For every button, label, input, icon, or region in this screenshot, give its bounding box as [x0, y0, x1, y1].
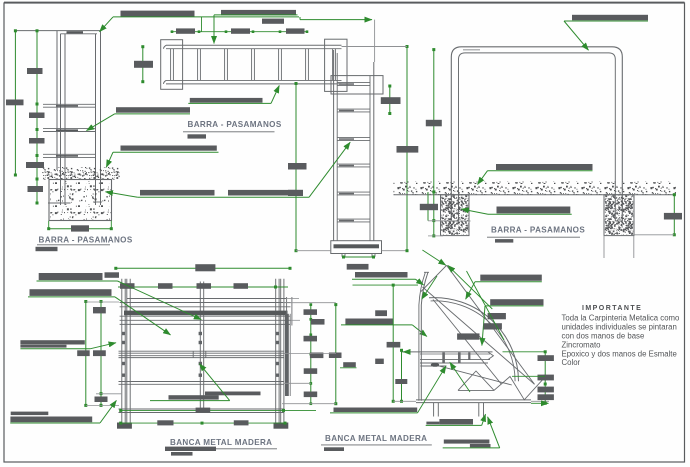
ground hatch strip right	[394, 182, 677, 195]
right height dimension D	[329, 303, 342, 405]
svg-text:Epoxico y dos manos de Esmalte: Epoxico y dos manos de Esmalte	[562, 349, 677, 358]
ladder rung 2	[43, 129, 96, 132]
ladder base crossbar	[331, 241, 382, 254]
handrail joint line	[463, 49, 480, 51]
footing block concrete fill	[50, 180, 111, 220]
bench bottom dimension row B	[119, 420, 286, 425]
seat height dimension	[393, 349, 416, 403]
right post footing	[604, 195, 634, 236]
ladder height dimension	[288, 82, 307, 252]
overall height dimension	[342, 45, 419, 252]
label BANCA METAL MADERA (front)	[165, 438, 277, 456]
green crossing diagonal	[467, 271, 505, 340]
right extension lines	[282, 303, 336, 404]
green leader to seat mid	[450, 362, 470, 392]
leader note top-left	[100, 11, 300, 32]
bench backrest rails	[120, 299, 291, 325]
bench seat rails	[119, 351, 285, 357]
green diagonal from top	[422, 250, 445, 265]
small dim bar above ladder	[262, 19, 284, 24]
truss diagonal e	[436, 365, 512, 385]
ladder top extension line	[15, 31, 101, 34]
left post footing fill	[441, 195, 468, 235]
bench foot plates	[117, 423, 288, 429]
svg-text:unidades individuales se pinta: unidades individuales se pintaran	[562, 323, 677, 332]
plan ladder rungs	[171, 49, 336, 81]
seat left extension arrow	[403, 351, 408, 353]
ladder top weld thick segment	[67, 31, 84, 33]
svg-text:BARRA - PASAMANOS: BARRA - PASAMANOS	[39, 236, 133, 245]
ground line	[394, 194, 677, 196]
bench right end verticals	[286, 297, 300, 326]
bench leg left	[122, 279, 130, 423]
footing depth dimension	[420, 192, 438, 221]
bench top width dimension	[114, 264, 291, 271]
small bar mid	[387, 342, 401, 348]
svg-text:con dos manos de base: con dos manos de base	[562, 332, 645, 341]
leader to ground hatch strip	[106, 146, 218, 168]
dimension line A (total height)	[6, 29, 24, 176]
bench bottom dimension row A	[119, 408, 316, 413]
side bench back post	[419, 272, 429, 400]
left height dimension A	[77, 300, 90, 407]
right footing depth dimension	[634, 193, 682, 236]
leader to footing	[461, 207, 571, 215]
leader arc top right	[466, 275, 542, 300]
small bar under seat left	[340, 359, 384, 368]
right post footing fill	[605, 195, 633, 235]
right height dimension C	[304, 303, 325, 405]
side bench legs	[434, 403, 484, 417]
seat support line	[420, 365, 446, 367]
leader tick to dim row	[201, 17, 203, 32]
right dim extensions	[503, 352, 549, 404]
extension line from arrow down	[374, 20, 376, 62]
plan ladder rails	[164, 45, 342, 84]
small bar left of arc	[375, 310, 387, 316]
connector blocks on legs	[122, 332, 279, 377]
rung pitch dimension row	[171, 28, 309, 33]
ground hatch strip left	[42, 167, 120, 180]
leader legs lower	[426, 414, 486, 425]
svg-text:BANCA METAL MADERA: BANCA METAL MADERA	[170, 438, 272, 447]
leader to left rung	[87, 107, 191, 130]
svg-text:Color: Color	[562, 358, 581, 367]
leader double arrow to footing and rung	[106, 142, 351, 197]
note title IMPORTANTE	[582, 305, 642, 312]
handrail outer tube	[451, 47, 622, 221]
ladder right rail	[96, 31, 101, 205]
leader with down arrow	[214, 15, 298, 44]
label BARRA - PASAMANOS (section)	[36, 236, 133, 252]
extension below right footing	[604, 236, 634, 258]
bench right plank section	[285, 314, 290, 396]
truss diagonal a	[421, 265, 447, 291]
truss diagonal d	[433, 300, 502, 385]
small bars in arc	[457, 313, 506, 340]
leader row1 to mid leg	[37, 272, 202, 319]
leader mid-bottom to connector	[150, 364, 261, 401]
label BANCA METAL MADERA (side)	[321, 434, 432, 451]
left height dimension B	[93, 300, 108, 407]
leader legs bottom	[443, 417, 500, 448]
truss diagonal c	[423, 287, 535, 384]
leader mid-left to rail	[20, 340, 116, 349]
leader under side bench	[330, 366, 446, 413]
bench leg middle	[200, 282, 203, 414]
corner gusset plate	[325, 39, 347, 91]
leader to top rail	[564, 15, 648, 50]
dimension line B (rung spacing)	[26, 29, 45, 204]
leader row2 to seat	[28, 289, 171, 335]
leader to back post top	[352, 272, 424, 285]
side bench bottom rail	[416, 400, 549, 403]
footing extension lines	[428, 221, 452, 236]
note body text	[562, 314, 681, 368]
bench leg right	[276, 279, 284, 423]
bench lower rail	[119, 382, 285, 385]
handrail height dimension	[426, 48, 442, 237]
left extension lines	[86, 302, 122, 405]
green diagonal to post	[422, 276, 437, 299]
vertical ladder right rail	[370, 62, 374, 241]
label BARRA - PASAMANOS (elevation)	[487, 225, 585, 242]
truss bottom zigzag	[458, 371, 545, 400]
plan ladder left end plate	[161, 40, 183, 90]
side seat planks	[402, 352, 493, 363]
ladder left rail	[57, 31, 65, 205]
side bench width dimension	[353, 284, 419, 403]
upper right small dimension	[381, 85, 401, 116]
leader note top-middle	[221, 10, 372, 20]
leader bottom-left to leg	[10, 400, 116, 423]
feet spacing dimension	[342, 256, 375, 270]
left post footing	[441, 195, 470, 236]
rail bottom caps in footing	[48, 202, 102, 203]
handrail inner tube	[459, 53, 616, 221]
ladder rung 3	[43, 154, 96, 157]
footing width dimension	[47, 221, 113, 232]
leader to ground	[478, 164, 593, 185]
leader seat right	[482, 299, 544, 345]
svg-text:BARRA - PASAMANOS: BARRA - PASAMANOS	[491, 225, 585, 234]
bench bay dimension row	[118, 283, 288, 289]
plan ladder width dimension	[134, 45, 153, 83]
svg-text:BARRA - PASAMANOS: BARRA - PASAMANOS	[188, 120, 282, 129]
corner plate horizontal	[331, 76, 383, 94]
svg-text:BANCA METAL MADERA: BANCA METAL MADERA	[325, 434, 427, 443]
bench bottom rail	[119, 409, 285, 413]
extension lines at crossbar	[296, 250, 407, 252]
svg-text:IMPORTANTE: IMPORTANTE	[582, 305, 642, 312]
ladder rung 1	[43, 104, 96, 107]
side bench right dimension stack	[538, 350, 554, 405]
leader right-top to back post	[341, 319, 427, 337]
base feet stubs	[342, 254, 375, 257]
post bottom caps	[451, 220, 622, 222]
truss diagonal b	[447, 265, 535, 384]
label BARRA - PASAMANOS (plan)	[183, 120, 282, 139]
vertical ladder left rail	[334, 50, 338, 241]
svg-text:Zincromato: Zincromato	[562, 340, 602, 349]
green diagonal to peak	[448, 265, 493, 309]
vertical ladder rungs	[337, 83, 370, 222]
footing block outline	[49, 180, 112, 221]
leader to bottom rail	[188, 86, 279, 104]
svg-text:Toda la Carpinteria Metalica c: Toda la Carpinteria Metalica como	[562, 314, 681, 323]
seat weld blob	[431, 363, 439, 367]
seat back arc	[429, 298, 519, 382]
